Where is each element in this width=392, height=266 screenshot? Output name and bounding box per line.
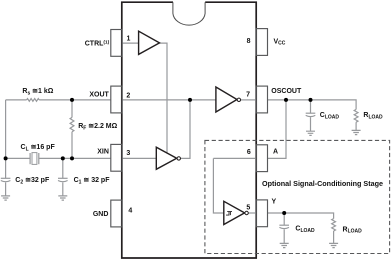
- svg-text:XIN: XIN: [97, 148, 109, 155]
- svg-text:1: 1: [127, 35, 131, 42]
- svg-text:4: 4: [128, 208, 132, 215]
- svg-text:Optional Signal-Conditioning S: Optional Signal-Conditioning Stage: [262, 179, 383, 188]
- svg-text:XOUT: XOUT: [89, 91, 109, 98]
- svg-text:OSCOUT: OSCOUT: [271, 88, 302, 95]
- svg-text:7: 7: [246, 92, 250, 99]
- svg-text:GND: GND: [93, 211, 109, 218]
- svg-text:8: 8: [247, 38, 251, 45]
- svg-text:3: 3: [126, 150, 130, 157]
- svg-text:Y: Y: [272, 199, 277, 206]
- svg-text:A: A: [273, 149, 278, 156]
- svg-text:5: 5: [246, 205, 250, 212]
- svg-text:2: 2: [126, 93, 130, 100]
- svg-text:6: 6: [247, 149, 251, 156]
